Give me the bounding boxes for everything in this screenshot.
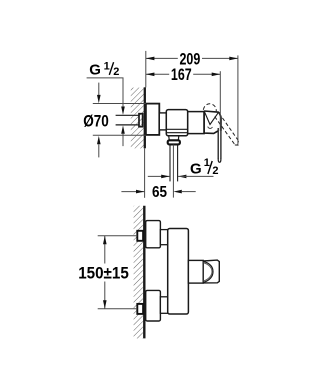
pipe end fitting [139, 114, 143, 127]
G1/2 leader underline [87, 78, 123, 107]
dim Ø70 ext lines [93, 103, 146, 105]
wall surface line (lower) [143, 206, 145, 339]
union pipe (top) [160, 230, 167, 245]
wall connection box (bottom) [137, 304, 143, 314]
handle lever dashed (pulled-out position) [219, 113, 238, 141]
wall hatch (lower) [134, 206, 143, 339]
shower outlet stub [169, 136, 179, 141]
small curve under cone [208, 127, 213, 129]
dim G1/2 outlet [148, 175, 170, 177]
ext line 209 [237, 55, 239, 146]
knob dome arcs [203, 261, 213, 282]
mixer body front block [166, 110, 187, 136]
union pipe (bottom) [160, 297, 167, 314]
wall hatch (upper) [131, 88, 144, 149]
cone silhouette diagonals [204, 111, 218, 124]
ext line left (wall) [145, 51, 147, 88]
ext line 150 bottom [98, 308, 138, 310]
svg-text:G: G [190, 161, 202, 178]
G1/2 inlet arrows [121, 107, 125, 115]
dim 150±15 [104, 236, 106, 264]
dim 167 [146, 73, 169, 75]
neck [159, 113, 166, 130]
cartridge cone [204, 111, 221, 134]
svg-text:2: 2 [212, 165, 218, 177]
handle knob [203, 260, 219, 283]
handle stem [188, 260, 203, 283]
svg-text:G: G [89, 62, 101, 79]
ext line 150 top [98, 235, 138, 237]
union escutcheon (bottom) [146, 290, 161, 321]
handle lever solid (down position) [217, 128, 219, 159]
handle cap arc (dashed, alternate position) [203, 104, 216, 112]
dim Ø70 arrows [98, 83, 100, 95]
dim 209 [146, 57, 178, 59]
union escutcheon (top) [146, 221, 161, 248]
outlet pipe [169, 145, 171, 182]
wall connection box (top) [137, 231, 143, 241]
body column [168, 229, 189, 315]
svg-text:150±15: 150±15 [78, 264, 129, 283]
svg-text:1: 1 [104, 60, 110, 72]
svg-text:1: 1 [204, 157, 210, 169]
svg-text:65: 65 [152, 184, 167, 201]
ext line 167 [219, 71, 221, 131]
dim 65 [121, 191, 144, 193]
mixer body rear block [188, 112, 204, 134]
outlet nut [168, 140, 180, 144]
svg-text:167: 167 [171, 65, 192, 84]
svg-text:2: 2 [113, 66, 119, 78]
wall surface line (upper) [144, 87, 146, 148]
wall extension line below (upper) [144, 148, 146, 198]
body bottom band lines [166, 128, 187, 130]
escutcheon flange [146, 104, 159, 135]
svg-text:Ø70: Ø70 [83, 111, 109, 130]
supply pipe G1/2 (behind wall) [116, 114, 140, 116]
outlet centerline [172, 145, 174, 198]
